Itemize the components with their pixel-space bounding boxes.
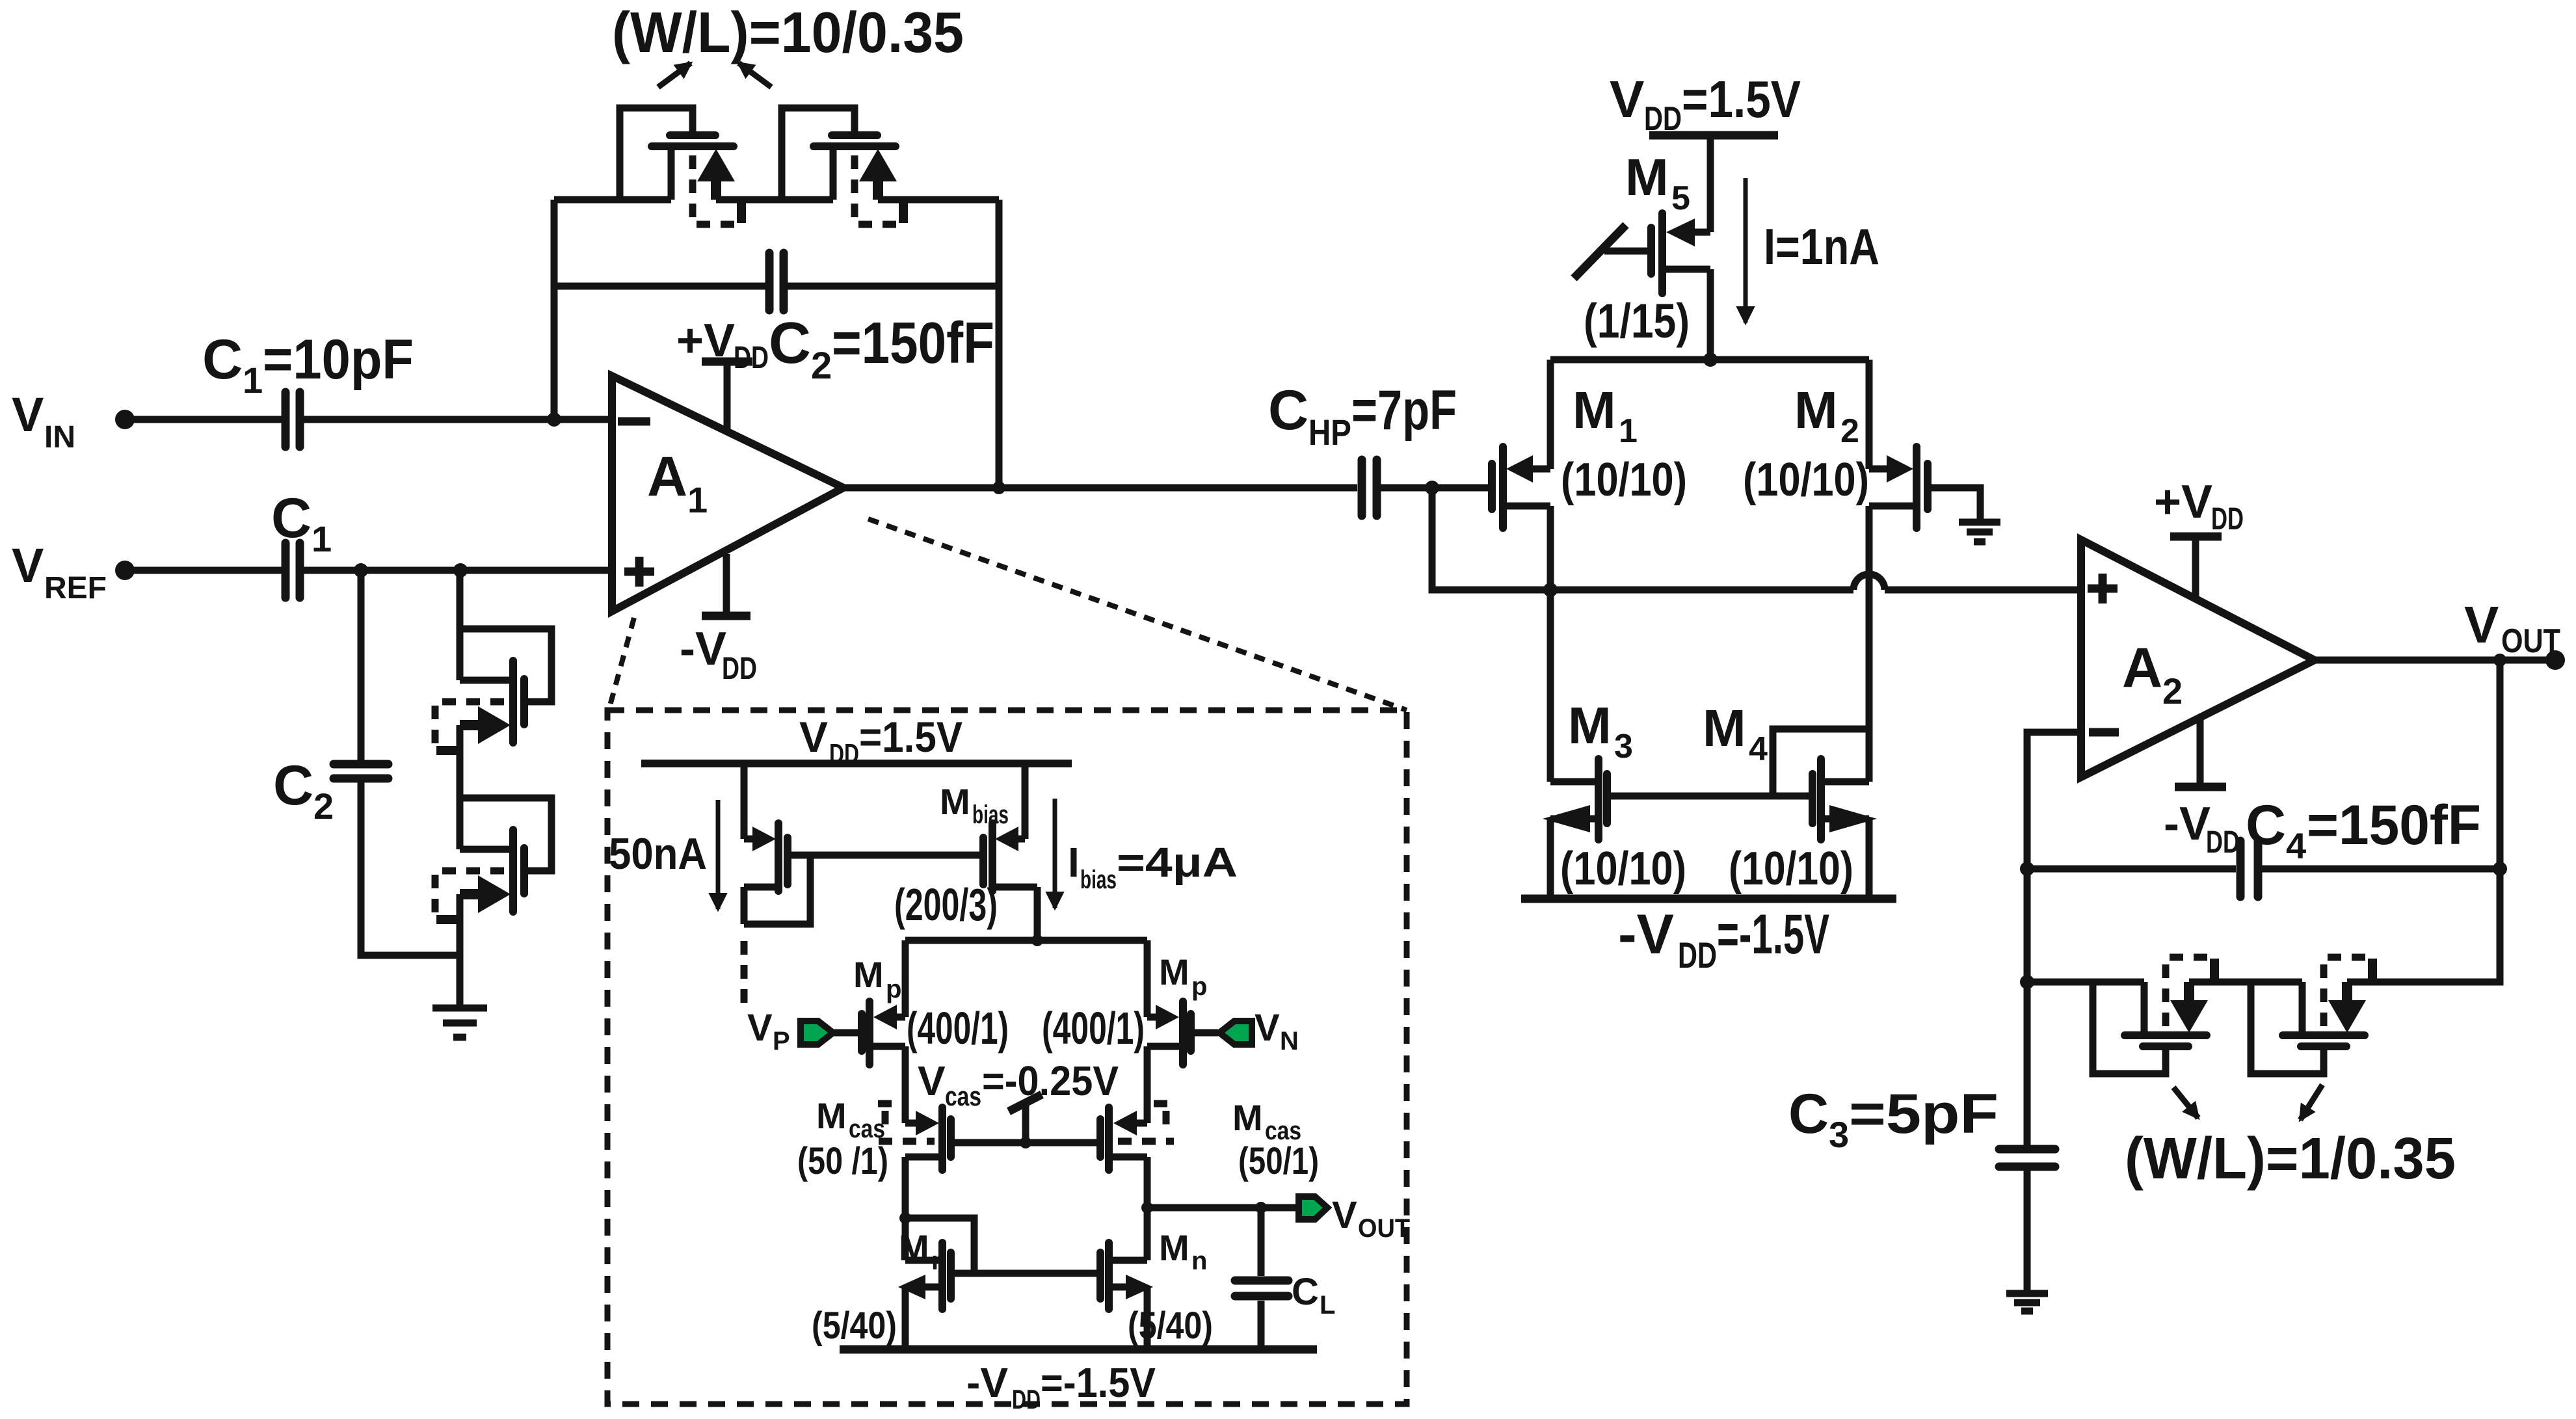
capacitor CL <box>1258 1208 1265 1276</box>
svg-text:N: N <box>1280 1027 1299 1055</box>
svg-text:DD: DD <box>1678 935 1717 975</box>
capacitor C1 (VREF) <box>282 543 290 598</box>
wire VDD stem to M5 source <box>1707 135 1714 232</box>
node OTA output junction <box>1141 1202 1153 1213</box>
node C4 left junction <box>2020 862 2034 876</box>
pin A2 plus <box>2088 585 2118 593</box>
svg-text:2: 2 <box>811 345 832 387</box>
svg-text:OUT: OUT <box>1358 1214 1410 1243</box>
power -VDD rail (inner) <box>840 1346 1317 1354</box>
svg-text:bias: bias <box>1080 866 1117 894</box>
svg-text:V: V <box>1332 1194 1357 1236</box>
svg-text:p: p <box>1191 972 1207 1001</box>
power VDD rail (inner) <box>641 760 1072 767</box>
transistor Mcas left <box>905 1107 951 1218</box>
wire dashed leader right <box>868 519 1407 710</box>
ground C3 <box>2006 1290 2048 1297</box>
wire C2 bottom to chain foot <box>361 782 460 955</box>
power -VDD of A2 <box>2175 783 2226 791</box>
node CL junction <box>1255 1202 1267 1213</box>
svg-text:DD: DD <box>722 652 757 686</box>
svg-text:n: n <box>1191 1247 1207 1275</box>
pin A2 minus <box>2089 728 2119 737</box>
svg-text:n: n <box>931 1247 947 1275</box>
transistor Mp right <box>1147 940 1191 1123</box>
svg-text:HP: HP <box>1308 412 1351 453</box>
wire diff pair top rail <box>1550 356 1869 364</box>
svg-text:(50/1): (50/1) <box>1238 1140 1319 1182</box>
wire C4 rail right <box>2262 866 2500 873</box>
wire feedback top rail segment 3 <box>878 196 999 204</box>
wire VREF junction down to C2 <box>358 570 365 760</box>
transistor M1 <box>1492 447 1550 590</box>
wire feedback right vertical <box>996 200 1003 488</box>
capacitor C3=5pF <box>1999 1145 2055 1154</box>
ground chain <box>432 1005 487 1012</box>
wire C1 to A1 inverting input <box>304 416 612 423</box>
svg-text:V: V <box>1255 1007 1280 1049</box>
node tail junction <box>1031 935 1043 946</box>
svg-text:(1/15): (1/15) <box>1584 294 1690 348</box>
svg-text:4: 4 <box>2286 825 2306 866</box>
node CHP output junction <box>1425 481 1439 495</box>
wire VOUT down to C4 rail <box>2497 660 2504 869</box>
svg-text:(50 /1): (50 /1) <box>797 1140 888 1182</box>
wire A2 minus input loop <box>2027 732 2081 869</box>
svg-text:C: C <box>1788 1083 1829 1145</box>
svg-text:1: 1 <box>687 479 708 520</box>
svg-text:2: 2 <box>1840 412 1859 450</box>
transistor pseudo-resistor PR6 <box>2251 957 2376 1074</box>
arrow current I=1nA <box>1744 178 1748 323</box>
svg-text:M: M <box>816 1095 847 1136</box>
wire C2 rail left <box>554 283 765 290</box>
wire C2 rail right <box>788 283 999 290</box>
pin VN flag <box>1191 1029 1218 1037</box>
capacitor C2 (to ground) <box>334 760 388 769</box>
svg-text:cas: cas <box>849 1115 885 1143</box>
node A1 output <box>992 481 1005 494</box>
wire VIN to C1 <box>125 416 282 423</box>
svg-text:OUT: OUT <box>2501 622 2560 660</box>
transistor M5 <box>1574 213 1710 360</box>
node VREF terminal <box>115 561 135 580</box>
svg-text:V: V <box>12 538 44 592</box>
svg-text:=-1.5V: =-1.5V <box>1717 903 1829 966</box>
svg-text:(5/40): (5/40) <box>1128 1305 1213 1347</box>
transistor Mcas right <box>1100 1107 1147 1208</box>
node feedback junction on VIN line <box>547 412 561 427</box>
transistor Mn right <box>1100 1208 1153 1349</box>
svg-text:C: C <box>271 487 312 550</box>
node Vcas junction <box>1020 1137 1031 1148</box>
svg-text:C: C <box>1268 379 1308 442</box>
svg-text:-V: -V <box>2164 798 2211 850</box>
transistor M3 <box>1543 590 1607 899</box>
svg-text:=5pF: =5pF <box>1849 1083 1998 1145</box>
svg-text:V: V <box>12 388 44 442</box>
svg-text:=7pF: =7pF <box>1351 379 1457 442</box>
svg-text:3: 3 <box>1614 728 1633 765</box>
svg-text:V: V <box>747 1007 773 1049</box>
svg-text:bias: bias <box>972 801 1009 829</box>
wire dashed leader left <box>609 618 634 710</box>
svg-text:M: M <box>1573 381 1616 439</box>
wire M3/M4 gate rail <box>1607 793 1812 800</box>
svg-text:cas: cas <box>945 1081 981 1111</box>
svg-text:1: 1 <box>243 360 263 401</box>
svg-text:2: 2 <box>2162 670 2183 711</box>
svg-text:1: 1 <box>1619 412 1638 450</box>
svg-text:M: M <box>1568 696 1612 754</box>
svg-text:(5/40): (5/40) <box>812 1305 897 1347</box>
wire Vcas bias tap <box>1022 1106 1029 1143</box>
svg-text:2: 2 <box>313 786 334 827</box>
node VIN terminal <box>115 410 135 429</box>
transistor Mp left <box>862 940 905 1123</box>
wire Mn gate rail <box>951 1270 1100 1277</box>
transistor pseudo-resistor PR1 <box>620 108 745 224</box>
wire M4 gate-drain tie <box>1773 729 1869 796</box>
wire C4 right down to pseudo-resistor rail <box>2347 869 2500 982</box>
wire diff pair tail rail <box>905 937 1147 944</box>
svg-text:(10/10): (10/10) <box>1743 454 1869 506</box>
svg-text:p: p <box>886 975 901 1003</box>
pin A1 plus <box>624 568 654 576</box>
wire feedback left vertical <box>551 200 558 419</box>
svg-text:-V: -V <box>680 623 726 675</box>
svg-text:M: M <box>1625 148 1669 206</box>
wire mid rail hop over M2 drain <box>1853 574 1885 590</box>
wire Mcas left bulk dashes <box>878 1104 935 1141</box>
node junction VREF/C2 <box>354 563 368 577</box>
transistor pseudo-resistor PR4 <box>435 798 551 923</box>
wire mirror gate rail <box>788 852 983 859</box>
transistor M50 current mirror <box>744 763 788 924</box>
wire C4 left down to pseudo-resistor rail <box>2024 869 2031 982</box>
arrow current Ibias <box>1053 799 1057 908</box>
wire feedback top rail segment 2 <box>716 196 833 204</box>
node C4 right junction <box>2493 862 2507 876</box>
transistor Mn left <box>898 1218 951 1349</box>
node junction VREF/pseudo-resistor chain <box>453 563 468 577</box>
svg-text:DD: DD <box>2206 825 2240 860</box>
wire Mn diode tie <box>905 1218 974 1273</box>
op-amp A2 <box>2081 540 2315 777</box>
wire VREF junction down to pseudo-resistor chain <box>457 570 464 680</box>
op-amp A1 <box>612 376 843 611</box>
svg-text:C: C <box>2246 794 2286 856</box>
wire C3 to ground <box>2024 1171 2031 1293</box>
transistor Mbias <box>983 763 1037 940</box>
transistor pseudo-resistor PR5 <box>2093 957 2218 1074</box>
wire feedback top rail segment 1 <box>554 196 671 204</box>
wire M50 gate-drain tie <box>744 855 810 924</box>
node pseudo-resistor rail left junction <box>2020 975 2034 989</box>
ground M2 gate <box>1959 519 2000 526</box>
svg-text:L: L <box>1320 1291 1335 1320</box>
pin VOUT flag (inner) <box>1299 1197 1327 1219</box>
svg-text:C: C <box>1292 1271 1319 1313</box>
svg-text:A: A <box>647 445 687 508</box>
wire M2 source vertical <box>1866 360 1873 469</box>
svg-text:M: M <box>1232 1097 1263 1138</box>
svg-text:(W/L)=1/0.35: (W/L)=1/0.35 <box>2125 1126 2456 1191</box>
node M5 drain / diff pair top <box>1703 352 1718 367</box>
svg-text:REF: REF <box>44 571 107 605</box>
wire pseudo rail segment 1 <box>2027 979 2144 986</box>
svg-text:=1.5V: =1.5V <box>859 713 963 761</box>
wire A2 output to VOUT <box>2315 657 2555 664</box>
wire VREF to C1 <box>125 567 282 574</box>
power VDD=1.5V supply bar <box>1649 131 1778 140</box>
wire C1 to A1 non-inverting input <box>304 567 612 574</box>
svg-text:=150fF: =150fF <box>832 311 994 376</box>
transistor M4 <box>1812 759 1877 899</box>
arrow current 50nA <box>716 800 721 909</box>
wire Vcas gate rail <box>951 1139 1100 1147</box>
capacitor C4=150fF <box>2237 841 2245 897</box>
wire CHP to M1 gate <box>1381 484 1489 492</box>
svg-text:=1.5V: =1.5V <box>1682 70 1801 128</box>
svg-text:50nA: 50nA <box>609 829 707 879</box>
arrow annotation left <box>658 63 691 87</box>
svg-text:A: A <box>2122 637 2162 699</box>
wire M2 gate to ground <box>1928 488 1980 520</box>
wire C4 rail left <box>2027 866 2236 873</box>
svg-text:C: C <box>769 311 811 376</box>
power +VDD of A1 <box>702 358 752 366</box>
svg-text:V: V <box>1610 70 1644 128</box>
svg-text:I: I <box>1068 839 1080 886</box>
svg-text:(10/10): (10/10) <box>1561 454 1687 506</box>
wire M1 source vertical <box>1547 360 1554 469</box>
svg-text:4: 4 <box>1749 730 1768 768</box>
svg-text:-V: -V <box>1618 903 1674 966</box>
transistor M2 <box>1869 447 1928 782</box>
capacitor C1 (VIN) <box>282 392 290 447</box>
svg-text:M: M <box>1159 1227 1189 1268</box>
svg-text:IN: IN <box>44 420 75 455</box>
svg-text:V: V <box>799 713 828 761</box>
power +VDD of A2 <box>2170 533 2222 541</box>
arrow annotation PR5 <box>2173 1087 2198 1118</box>
node mid rail / M1 drain junction <box>1543 583 1558 597</box>
wire mid rail to A2 plus input <box>1885 587 2081 594</box>
svg-text:DD: DD <box>2211 502 2244 537</box>
svg-text:M: M <box>853 954 884 995</box>
wire chain mid segment <box>457 725 464 849</box>
pin VP flag <box>834 1029 862 1037</box>
wire pseudo rail segment 2 <box>2189 979 2302 986</box>
transistor pseudo-resistor PR3 <box>435 629 551 754</box>
node Mcas left drain junction <box>899 1212 911 1224</box>
power -VDD rail of OTA stage <box>1521 895 1896 903</box>
svg-text:+V: +V <box>676 315 735 367</box>
svg-text:(10/10): (10/10) <box>1729 843 1853 895</box>
svg-text:M: M <box>899 1227 929 1268</box>
capacitor CHP=7pF <box>1358 460 1366 516</box>
svg-text:-V: -V <box>966 1359 1008 1406</box>
wire CHP junction drop to mid rail <box>1432 488 1853 590</box>
svg-text:I=1nA: I=1nA <box>1764 218 1879 275</box>
svg-text:(200/3): (200/3) <box>894 879 998 930</box>
svg-text:5: 5 <box>1671 179 1690 217</box>
capacitor C2 (feedback) <box>765 253 774 310</box>
arrow annotation PR6 <box>2300 1085 2322 1120</box>
transistor pseudo-resistor PR2 <box>782 108 907 224</box>
wire OTA output <box>1147 1204 1299 1212</box>
svg-text:3: 3 <box>1829 1114 1849 1155</box>
svg-text:M: M <box>940 781 970 822</box>
svg-text:(10/10): (10/10) <box>1560 843 1686 895</box>
wire A1 output to CHP <box>843 484 1357 492</box>
power -VDD of A1 <box>702 612 750 620</box>
svg-text:M: M <box>1794 381 1838 439</box>
arrow annotation right <box>739 63 771 87</box>
svg-text:V: V <box>2464 596 2499 654</box>
svg-text:M: M <box>1159 951 1189 992</box>
node A2 output feedback junction <box>2493 654 2506 667</box>
svg-text:DD: DD <box>734 341 769 375</box>
wire down to C3 <box>2024 982 2031 1145</box>
svg-text:1: 1 <box>312 518 332 559</box>
svg-text:=150fF: =150fF <box>2307 794 2481 856</box>
pin A1 minus <box>618 418 650 426</box>
svg-text:C: C <box>273 754 313 817</box>
wire Mcas right bulk dashes <box>1118 1104 1175 1141</box>
svg-text:P: P <box>773 1027 790 1055</box>
wire chain bottom segment <box>457 894 464 1008</box>
svg-text:DD: DD <box>1644 100 1682 138</box>
svg-text:=10pF: =10pF <box>263 328 414 391</box>
svg-text:V: V <box>918 1057 946 1104</box>
wire M50 dashed bias stub <box>741 941 748 1009</box>
node VOUT terminal <box>2545 650 2565 670</box>
dashed detail box <box>607 710 1407 1404</box>
svg-text:DD: DD <box>1012 1384 1041 1414</box>
svg-text:+V: +V <box>2154 476 2212 528</box>
svg-text:=4μA: =4μA <box>1117 839 1238 886</box>
svg-text:C: C <box>202 328 243 391</box>
svg-text:(400/1): (400/1) <box>907 1003 1009 1054</box>
svg-text:M: M <box>1703 699 1746 757</box>
svg-text:(W/L)=10/0.35: (W/L)=10/0.35 <box>612 0 964 64</box>
svg-text:(400/1): (400/1) <box>1042 1003 1145 1054</box>
svg-text:=-1.5V: =-1.5V <box>1041 1359 1156 1406</box>
svg-text:=-0.25V: =-0.25V <box>982 1057 1119 1104</box>
